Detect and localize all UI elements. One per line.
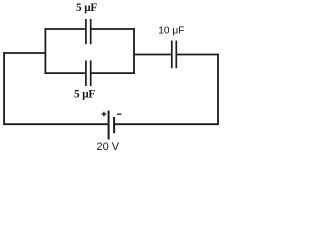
battery V1 20V [109,111,115,140]
svg-text:10 μF: 10 μF [158,26,184,37]
capacitor C1 5uF top plates [85,19,87,44]
wire parallel-box left side [44,28,46,74]
svg-text:5 μF: 5 μF [76,2,97,14]
wire parallel-box top branch right [91,28,134,30]
svg-text:20 V: 20 V [97,141,120,153]
battery plus sign [102,112,107,117]
battery minus sign [117,113,121,115]
wire mid right (to 10uF) right part [177,54,219,56]
wire bottom right segment [115,123,219,125]
wire outer left vertical [3,52,5,125]
wire mid right (to 10uF) left part [134,54,171,56]
wire parallel-box bottom branch left [45,72,85,74]
wire parallel-box right side [133,28,135,74]
svg-text:5 μF: 5 μF [74,89,95,101]
wire parallel-box bottom branch right [91,72,134,74]
capacitor C3 10uF plates [171,41,173,69]
wire left connector [3,52,45,54]
wire bottom left segment [3,123,107,125]
wire outer right vertical [217,54,219,125]
capacitor C2 5uF bottom plates [85,60,87,86]
wire parallel-box top branch left [45,28,85,30]
